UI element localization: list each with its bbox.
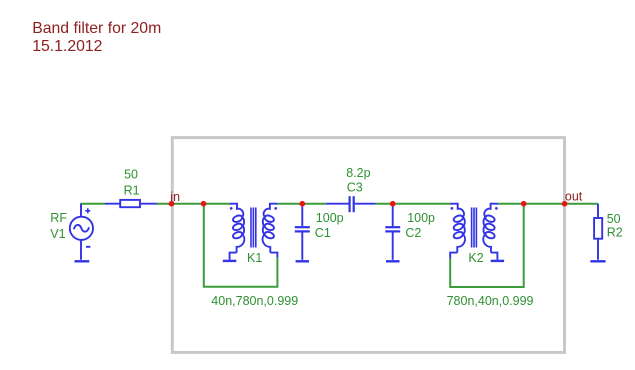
svg-text:15.1.2012: 15.1.2012: [32, 38, 102, 55]
wire K1 secondary to C3 (through C1 node): [277, 203, 327, 205]
svg-text:780n,40n,0.999: 780n,40n,0.999: [447, 294, 534, 308]
capacitor C3: [326, 196, 375, 212]
ground K2: [491, 260, 504, 262]
transformer K2 core: [472, 208, 477, 248]
inductor K2 secondary: [483, 204, 498, 253]
ground V1: [75, 260, 90, 262]
junction dot K1 loop: [201, 201, 207, 207]
svg-text:K2: K2: [468, 251, 483, 265]
node in junction dot: [169, 201, 175, 207]
inductor K1 primary: [230, 204, 245, 253]
svg-text:K1: K1: [247, 251, 262, 265]
svg-text:C3: C3: [347, 181, 363, 195]
svg-text:8.2p: 8.2p: [346, 166, 370, 180]
svg-text:50: 50: [124, 168, 138, 182]
wire R1 to K1 primary (through node in): [157, 203, 230, 205]
svg-text:V1: V1: [50, 227, 65, 241]
svg-text:100p: 100p: [407, 211, 435, 225]
resistor R2: [594, 204, 602, 260]
K1 primary bottom lead to ground: [230, 253, 237, 260]
resistor R1: [105, 200, 157, 207]
wire K2 secondary to R2 (through node out): [498, 203, 599, 205]
voltage source V1: [70, 204, 93, 260]
svg-text:50: 50: [607, 212, 621, 226]
ground R2: [590, 260, 605, 262]
wire K1 feedback loop: [204, 204, 278, 287]
K2 primary bottom lead: [450, 253, 457, 259]
junction dot K2 loop: [521, 201, 527, 207]
svg-text:in: in: [170, 190, 180, 204]
svg-text:100p: 100p: [316, 211, 344, 225]
svg-text:R2: R2: [607, 225, 623, 239]
capacitor C1: [295, 204, 310, 260]
capacitor C2: [385, 204, 400, 260]
svg-text:40n,780n,0.999: 40n,780n,0.999: [211, 294, 298, 308]
svg-text:C1: C1: [315, 226, 331, 240]
wire K2 feedback loop: [450, 204, 524, 287]
junction dot C1: [300, 201, 306, 207]
inductor K2 primary: [450, 204, 465, 253]
svg-text:RF: RF: [50, 211, 67, 225]
inductor K1 secondary: [263, 204, 278, 253]
svg-text:Band filter for 20m: Band filter for 20m: [32, 20, 161, 37]
filter box outline: [172, 138, 564, 353]
ground C1: [296, 260, 309, 262]
svg-text:R1: R1: [124, 184, 140, 198]
K2 secondary bottom lead to ground: [491, 253, 497, 260]
junction dot C2: [390, 201, 396, 207]
K1 secondary bottom lead: [270, 253, 277, 258]
wire C3 to K2 primary (through C2 node): [375, 203, 450, 205]
svg-text:out: out: [565, 190, 583, 204]
ground C2: [386, 260, 400, 262]
transformer K1 core: [251, 208, 256, 248]
wire V1 to R1: [80, 203, 105, 205]
ground K1: [223, 260, 237, 262]
svg-text:C2: C2: [405, 226, 421, 240]
node out junction dot: [562, 201, 568, 207]
